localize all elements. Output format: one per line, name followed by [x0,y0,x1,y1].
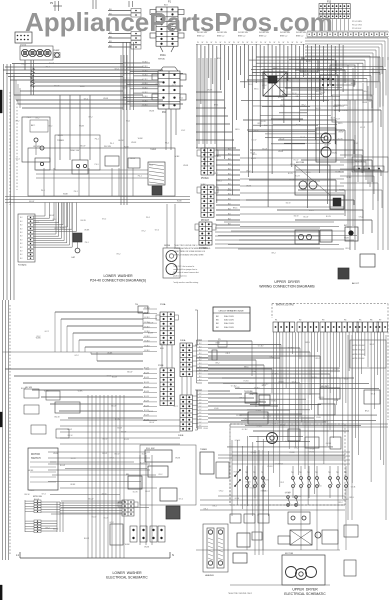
svg-text:P5: P5 [359,320,361,322]
svg-text:BU-W: BU-W [144,396,149,398]
svg-text:BU-W: BU-W [25,494,30,496]
svg-text:V1 V2: V1 V2 [20,45,27,47]
svg-text:BR-5: BR-5 [338,123,342,125]
svg-text:GY-2: GY-2 [179,97,183,99]
svg-text:BU-W: BU-W [252,140,257,142]
svg-text:BU-W: BU-W [115,419,120,421]
svg-text:OR-2: OR-2 [252,371,257,373]
svg-text:GY-BU: GY-BU [144,350,150,352]
svg-text:W-BK: W-BK [246,185,252,187]
svg-text:GY-2: GY-2 [84,99,88,101]
svg-text:OR-2: OR-2 [203,508,208,510]
svg-text:OR-2: OR-2 [267,415,272,417]
svg-text:SERIAL: SERIAL [158,58,166,61]
svg-text:GY-BU: GY-BU [256,426,262,428]
svg-text:GY-BU: GY-BU [142,70,148,72]
svg-text:BU-W: BU-W [288,173,293,175]
svg-text:P5 BLK: P5 BLK [201,178,209,180]
svg-text:BU-W: BU-W [304,74,309,76]
svg-text:P3: P3 [322,320,324,322]
svg-text:BR-5: BR-5 [306,342,310,344]
svg-text:OR-2: OR-2 [359,217,364,219]
svg-text:W-BK: W-BK [84,230,90,232]
svg-text:W-BK: W-BK [60,228,66,230]
svg-text:BU-W: BU-W [254,130,259,132]
svg-text:MOTOR: MOTOR [31,453,40,456]
svg-text:DISPLAY BOARD GROUND WIRE: DISPLAY BOARD GROUND WIRE [174,253,204,256]
svg-text:BR-5: BR-5 [244,367,248,369]
svg-text:W: W [215,42,217,44]
svg-text:GY-2: GY-2 [158,474,162,476]
svg-text:GY-2: GY-2 [110,522,114,524]
svg-text:*verify washer used the wirin: *verify washer used the wiring [173,281,198,284]
svg-text:BR-5: BR-5 [306,172,310,174]
svg-text:BU-W: BU-W [133,491,138,493]
svg-text:W-BK: W-BK [177,201,183,203]
svg-text:BU-W: BU-W [262,148,267,150]
svg-text:BR-5: BR-5 [262,385,266,387]
svg-text:OR-2: OR-2 [213,173,218,175]
svg-text:BR-5: BR-5 [249,383,253,385]
svg-text:GY-BU: GY-BU [235,440,241,442]
svg-text:W-BK: W-BK [333,140,339,142]
svg-text:connected thru jumper bar to: connected thru jumper bar to [173,268,197,271]
svg-text:TIMER: TIMER [150,149,157,151]
svg-text:30A / 240V: 30A / 240V [224,326,234,329]
svg-text:OR-2: OR-2 [219,491,224,493]
svg-text:BR-5: BR-5 [216,156,220,158]
svg-text:GY-BU: GY-BU [271,400,277,402]
svg-text:P24B: P24B [158,365,164,367]
svg-text:GY-B: GY-B [371,394,376,396]
svg-text:W-BK: W-BK [21,64,27,66]
svg-text:GY-BU: GY-BU [242,429,248,431]
svg-text:*ELECTRIC DRYER ONLY: *ELECTRIC DRYER ONLY [228,593,253,595]
svg-text:BR-5: BR-5 [218,181,222,183]
svg-text:GY-2: GY-2 [181,130,185,132]
svg-text:BU-W: BU-W [80,146,85,148]
svg-text:W: W [301,42,303,44]
svg-text:BU-W: BU-W [306,61,311,63]
svg-text:BU-W: BU-W [148,323,153,325]
svg-text:GY-BU: GY-BU [142,75,148,77]
svg-text:BU-W: BU-W [53,529,58,531]
svg-text:OR-2: OR-2 [345,248,350,250]
svg-text:NOTE GY-BU: NOTE GY-BU [352,358,365,360]
svg-text:P40A: P40A [180,339,186,342]
svg-text:30A / 240V: 30A / 240V [224,322,234,325]
svg-text:OR-2: OR-2 [246,171,251,173]
svg-text:GY-BU: GY-BU [267,466,273,468]
svg-text:WIRING CONNECTION DIAGRAMS: WIRING CONNECTION DIAGRAMS [259,285,315,289]
svg-text:NOTE GY-BU: NOTE GY-BU [352,345,365,347]
svg-text:GY-BU: GY-BU [280,424,286,426]
svg-text:BR-5: BR-5 [235,129,239,131]
svg-text:W-BK: W-BK [332,153,338,155]
svg-text:BU-W: BU-W [111,405,116,407]
svg-text:BR-5: BR-5 [204,371,208,373]
svg-text:PUMP: PUMP [53,50,60,52]
svg-text:OR-2: OR-2 [227,190,232,192]
svg-text:BU-W: BU-W [144,391,149,393]
svg-text:GY-2: GY-2 [172,85,176,87]
svg-text:W: W [292,42,294,44]
svg-text:P4-1: P4-1 [165,142,169,144]
svg-text:BU-W: BU-W [316,108,321,110]
svg-text:BU-W: BU-W [326,216,331,218]
svg-text:GY-BU: GY-BU [142,88,148,90]
svg-text:BU-W: BU-W [21,388,26,390]
svg-text:ELECTRICAL SCHEMATIC: ELECTRICAL SCHEMATIC [106,576,148,580]
svg-text:BU-W: BU-W [300,137,305,139]
svg-text:DRIVE: DRIVE [164,245,171,247]
svg-text:W-BK: W-BK [149,111,155,113]
svg-text:W-BK: W-BK [53,453,59,455]
svg-text:BU-W: BU-W [264,125,269,127]
svg-text:P4-1: P4-1 [110,143,114,145]
svg-text:W: W [211,42,213,44]
svg-text:GY-2: GY-2 [54,228,58,230]
svg-text:BU-W: BU-W [71,458,76,460]
svg-text:NOTE GY-BU: NOTE GY-BU [352,354,365,356]
svg-text:GY-BU: GY-BU [142,105,148,107]
svg-text:GY-2: GY-2 [116,254,120,256]
svg-text:CAP: CAP [71,256,76,259]
svg-text:W-BK: W-BK [144,547,150,549]
svg-text:GREY WIRE ON SOME MODELS IS: GREY WIRE ON SOME MODELS IS [174,251,206,253]
svg-text:BU-W: BU-W [115,453,120,455]
svg-text:LID SW: LID SW [25,387,32,389]
svg-text:TIMER: TIMER [57,140,64,142]
svg-text:W: W [242,42,244,44]
svg-text:BU-W: BU-W [338,138,343,140]
svg-text:P4-1: P4-1 [138,176,142,178]
svg-text:W-BK: W-BK [201,184,207,186]
svg-text:W: W [265,42,267,44]
svg-text:BU-W: BU-W [144,415,149,417]
svg-text:GY-B: GY-B [279,464,284,466]
svg-text:FILL SW: FILL SW [146,448,155,450]
svg-text:BU-W: BU-W [124,439,129,441]
svg-text:MTR SW: MTR SW [33,496,43,498]
svg-text:W-BK: W-BK [183,165,189,167]
svg-text:W-BK: W-BK [131,142,137,144]
svg-text:P4-1: P4-1 [126,121,130,123]
svg-text:BU-W: BU-W [144,387,149,389]
svg-text:GY-B: GY-B [344,378,349,380]
svg-text:OR-2: OR-2 [270,356,275,358]
svg-text:OR-2: OR-2 [271,252,276,254]
svg-text:BR-5: BR-5 [365,411,369,413]
svg-text:P24A: P24A [160,54,166,57]
svg-text:GY-2: GY-2 [149,411,153,413]
svg-text:GY-BU: GY-BU [144,317,150,319]
svg-text:BU-W: BU-W [303,217,308,219]
svg-text:OR-2: OR-2 [280,482,285,484]
svg-text:GY-BU: GY-BU [142,62,148,64]
svg-text:BU-W: BU-W [144,382,149,384]
svg-text:GY-2: GY-2 [35,118,39,120]
svg-text:W-BK: W-BK [324,140,330,142]
svg-text:GY-2: GY-2 [52,219,56,221]
svg-text:GY-2: GY-2 [16,158,20,160]
svg-text:GY-BU: GY-BU [258,345,264,347]
svg-text:P4-1: P4-1 [95,164,99,166]
svg-text:GY-B: GY-B [351,486,356,488]
svg-text:P4-1: P4-1 [41,190,45,192]
svg-text:BU-W: BU-W [122,87,127,89]
svg-text:W: W [197,42,199,44]
svg-text:BU-W: BU-W [251,158,256,160]
svg-text:P4-1: P4-1 [146,217,150,219]
svg-text:P7: P7 [379,320,381,322]
svg-text:W-BK: W-BK [103,98,109,100]
svg-text:GY-BU: GY-BU [285,492,291,494]
svg-text:GY-2: GY-2 [115,68,119,70]
svg-text:P4-1: P4-1 [85,242,89,244]
svg-text:W: W [278,42,280,44]
svg-text:OR-2: OR-2 [212,506,217,508]
svg-text:AD KIT: AD KIT [352,282,360,285]
svg-text:BU-W: BU-W [102,453,107,455]
svg-text:ATC: ATC [31,124,36,127]
svg-text:BR-5: BR-5 [240,398,244,400]
svg-text:BU-W: BU-W [309,210,314,212]
svg-text:W-BK: W-BK [28,470,34,472]
svg-text:WL SW: WL SW [104,146,111,148]
svg-text:BU-W: BU-W [292,93,297,95]
svg-text:BU-W: BU-W [68,435,73,437]
svg-text:W-BK: W-BK [44,391,50,393]
svg-text:GY-BU: GY-BU [142,100,148,102]
svg-text:P4-1: P4-1 [46,66,50,68]
svg-text:GY-BU: GY-BU [144,336,150,338]
svg-text:W-BK: W-BK [317,89,323,91]
svg-text:BU-W: BU-W [279,139,284,141]
svg-text:GY-B: GY-B [316,417,321,419]
svg-text:MATRIX OUTPUT: MATRIX OUTPUT [276,304,295,307]
svg-text:GY-BU: GY-BU [142,92,148,94]
svg-text:GY-B: GY-B [334,400,339,402]
svg-text:BU-W: BU-W [121,432,126,434]
svg-text:W: W [224,42,226,44]
svg-text:ELECTRICAL SCHEMATIC: ELECTRICAL SCHEMATIC [284,592,326,596]
svg-text:BU-W: BU-W [117,428,122,430]
svg-text:TEMP SW: TEMP SW [70,150,79,152]
svg-text:BU-W: BU-W [92,517,97,519]
svg-text:BR-5: BR-5 [296,96,300,98]
svg-text:W-BK: W-BK [344,238,350,240]
svg-text:BU-W: BU-W [29,201,34,203]
svg-text:OR-2: OR-2 [294,447,299,449]
svg-text:BR-5: BR-5 [350,497,354,499]
svg-text:BU-W: BU-W [296,125,301,127]
svg-text:GY-BU: GY-BU [326,443,332,445]
svg-text:GY-BU: GY-BU [236,415,242,417]
svg-text:W: W [274,42,276,44]
svg-text:OR-2: OR-2 [215,362,220,364]
svg-text:W-BK: W-BK [124,147,130,149]
svg-text:BU-W: BU-W [278,97,283,99]
svg-text:LOWER WASHER: LOWER WASHER [103,274,133,278]
svg-text:GY-2: GY-2 [42,493,46,495]
svg-text:P24A: P24A [160,303,166,306]
svg-text:GY-B: GY-B [214,408,219,410]
svg-text:GY-2: GY-2 [141,231,145,233]
svg-text:BU-W: BU-W [325,145,330,147]
svg-text:BU-W: BU-W [144,377,149,379]
svg-text:GY-B: GY-B [215,343,220,345]
svg-text:W-BK: W-BK [79,126,85,128]
svg-text:HI-LIMIT: HI-LIMIT [321,386,330,388]
svg-text:MOTOR: MOTOR [285,553,294,555]
svg-text:CONSOLE: CONSOLE [262,69,273,71]
svg-text:UPPER DRYER: UPPER DRYER [292,588,318,592]
svg-text:W: W [256,42,258,44]
svg-text:MOTOR: MOTOR [296,162,305,164]
svg-text:GY-BU: GY-BU [142,83,148,85]
svg-text:GY-2: GY-2 [145,369,149,371]
svg-text:W: W [251,42,253,44]
svg-text:P4-1: P4-1 [27,117,31,119]
svg-text:GY-BU: GY-BU [285,441,291,443]
svg-text:P4-1: P4-1 [149,165,153,167]
svg-text:30A / 240V: 30A / 240V [224,315,234,318]
svg-text:W-BK: W-BK [155,84,161,86]
svg-text:W: W [238,42,240,44]
svg-text:OR-2: OR-2 [339,131,344,133]
svg-text:W-BK: W-BK [36,338,42,340]
svg-text:P13: P13 [327,2,332,4]
svg-text:BU-W: BU-W [67,429,72,431]
svg-text:P2: P2 [299,320,301,322]
svg-text:GY-BU: GY-BU [264,479,270,481]
svg-text:OR-2: OR-2 [313,69,318,71]
svg-text:W-BK: W-BK [175,458,181,460]
svg-text:BR-5: BR-5 [259,401,263,403]
svg-text:P4-1: P4-1 [74,191,78,193]
svg-text:*ELECTRIC DRYER ONLY, CONNECTO: *ELECTRIC DRYER ONLY, CONNECTOR [174,245,210,247]
svg-text:W-BK: W-BK [63,193,69,195]
svg-text:BU-W: BU-W [84,538,89,540]
svg-text:BU-W: BU-W [149,422,154,424]
svg-text:W-BK: W-BK [278,151,284,153]
svg-text:AppliancePartsPros.com: AppliancePartsPros.com [25,7,333,37]
svg-text:W: W [287,42,289,44]
svg-text:BU-W: BU-W [339,189,344,191]
svg-text:VIEWS SHOWN WITH WIRES ATTACHE: VIEWS SHOWN WITH WIRES ATTACHED [174,247,211,250]
svg-text:BU-W: BU-W [118,140,123,142]
svg-text:W-BK: W-BK [107,353,113,355]
svg-text:BU-W: BU-W [58,135,63,137]
svg-text:W-BK: W-BK [319,94,325,96]
svg-text:BU-W: BU-W [130,158,135,160]
svg-text:W: W [260,42,262,44]
svg-text:BU-W: BU-W [144,419,149,421]
svg-text:GY-B: GY-B [292,381,297,383]
svg-text:GY-2: GY-2 [15,121,19,123]
svg-text:BU-W: BU-W [301,189,306,191]
svg-text:GY-BU: GY-BU [254,388,260,390]
svg-text:GY-BU: GY-BU [144,308,150,310]
svg-text:P24-40 CONNECTION DIAGRAM(S): P24-40 CONNECTION DIAGRAM(S) [90,279,146,283]
svg-text:LID SW: LID SW [33,146,40,148]
svg-text:GY-2: GY-2 [179,498,183,500]
svg-text:OR-2: OR-2 [244,419,249,421]
svg-text:BU-W: BU-W [144,401,149,403]
svg-text:GY-2: GY-2 [155,230,159,232]
svg-text:W-BK: W-BK [207,89,213,91]
svg-text:GY-BU: GY-BU [272,423,278,425]
svg-text:BU-W: BU-W [335,119,340,121]
svg-text:BU-W: BU-W [127,372,132,374]
svg-text:P24 A(S): P24 A(S) [18,264,27,267]
svg-text:BU-W: BU-W [88,498,93,500]
svg-text:P13-3 BLU: P13-3 BLU [352,28,362,30]
svg-text:GY-2: GY-2 [48,126,52,128]
svg-text:LOWER WASHER: LOWER WASHER [112,571,142,575]
svg-text:OR-2: OR-2 [257,123,262,125]
svg-text:GY-2: GY-2 [74,355,78,357]
svg-text:SWITCH: SWITCH [31,457,41,460]
svg-text:W: W [269,42,271,44]
svg-text:BU-W: BU-W [34,499,39,501]
svg-text:W: W [247,42,249,44]
svg-text:W-BK: W-BK [78,391,84,393]
svg-text:W-BK: W-BK [347,177,353,179]
svg-text:BU-W: BU-W [294,216,299,218]
svg-text:GY-2: GY-2 [110,457,114,459]
svg-text:BU-W: BU-W [148,333,153,335]
svg-text:CIRCUIT BREAKER GUIDE: CIRCUIT BREAKER GUIDE [218,310,244,313]
svg-text:P13-2 ORG: P13-2 ORG [352,25,362,27]
svg-text:GY-BU: GY-BU [142,96,148,98]
svg-text:TH FUSE: TH FUSE [244,391,253,393]
svg-text:W-BK: W-BK [125,544,131,546]
svg-text:W: W [202,42,204,44]
svg-text:W: W [296,42,298,44]
svg-text:DRYER CORD: DRYER CORD [334,110,348,112]
svg-text:GY-2: GY-2 [45,528,49,530]
svg-text:HEATER: HEATER [205,574,214,577]
svg-text:P4: P4 [344,320,346,322]
svg-text:OR-2: OR-2 [301,105,306,107]
svg-text:W-BK: W-BK [138,138,144,140]
svg-text:W: W [233,42,235,44]
svg-text:OR-2: OR-2 [225,353,230,355]
svg-text:BU-W: BU-W [295,176,300,178]
svg-text:BU-W: BU-W [331,118,336,120]
svg-text:BU-W: BU-W [144,372,149,374]
svg-text:BU-W: BU-W [103,518,108,520]
svg-text:W: W [220,42,222,44]
svg-text:BR-5: BR-5 [354,143,358,145]
svg-text:GY-BU: GY-BU [144,312,150,314]
svg-text:BU-W: BU-W [289,180,294,182]
svg-text:BU-W: BU-W [54,85,59,87]
svg-text:P40B: P40B [178,435,184,437]
svg-text:P1: P1 [275,320,277,322]
svg-text:GY-2: GY-2 [88,117,92,119]
svg-text:W-BK: W-BK [70,484,76,486]
svg-text:BR-5: BR-5 [254,88,258,90]
svg-text:BR-5: BR-5 [233,208,237,210]
svg-text:P6: P6 [370,320,372,322]
svg-text:BR-5: BR-5 [279,119,283,121]
svg-text:GY-B: GY-B [249,394,254,396]
svg-text:GY-BU: GY-BU [309,448,315,450]
svg-text:BU-W: BU-W [103,438,108,440]
